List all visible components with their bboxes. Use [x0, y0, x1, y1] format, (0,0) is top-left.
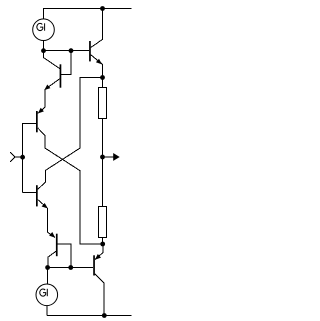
transistor Q6 emitter arrow	[95, 254, 101, 260]
wire Q1 base riser	[61, 51, 71, 75]
wire output stub	[103, 156, 115, 158]
transistor Q2 base bar	[36, 111, 38, 132]
wire GI1 bottom lead	[43, 41, 45, 59]
wire Q3 emitter lead	[38, 200, 48, 209]
output terminal arrow	[113, 153, 120, 161]
wire Q5 emitter drop	[101, 64, 103, 78]
current source GI1 label	[37, 23, 45, 30]
wire Q6 emitter lead	[95, 244, 103, 260]
junction dot bus left	[41, 48, 46, 53]
transistor Q1 base bar	[60, 64, 62, 87]
wire GI2 bottom lead	[46, 306, 48, 316]
resistor R2	[99, 207, 107, 238]
wire GI2 top lead	[46, 268, 48, 285]
junction dot R2 bottom node	[100, 242, 105, 247]
wire Q3 base	[23, 192, 36, 194]
input terminal prong lower	[10, 157, 15, 162]
current source GI1 circle	[33, 19, 55, 41]
transistor Q3 base bar	[36, 185, 38, 206]
transistor Q5 emitter arrow	[96, 59, 102, 65]
wire R1 bottom lead	[102, 118, 104, 157]
wire Q1 collector	[44, 58, 60, 69]
wire Q4 emitter lead	[48, 232, 55, 237]
wire top bus	[44, 50, 90, 52]
junction dot input node	[20, 155, 25, 160]
wire Q4 base riser	[58, 244, 71, 268]
wire Q5 emitter lead	[91, 55, 103, 65]
junction dot bottom rail	[102, 313, 107, 318]
transistor Q4 base bar	[56, 234, 58, 257]
transistor Q2 emitter arrow	[38, 108, 44, 114]
current source GI2 label	[40, 289, 48, 296]
resistor R1	[99, 88, 107, 119]
wire GI1 top lead	[43, 9, 45, 20]
wire Q2 emitter lead	[38, 107, 45, 113]
transistor Q6 base bar	[93, 255, 95, 275]
current source GI2 circle	[36, 284, 58, 306]
transistor Q4 emitter arrow	[49, 232, 55, 238]
wire Q1-Q2 emitter link	[44, 89, 46, 108]
wire R1 top lead	[102, 78, 104, 88]
junction dot bottom bus left	[45, 265, 50, 270]
junction dot bottom bus right	[68, 265, 73, 270]
wire Q2 collector to cross	[38, 128, 103, 244]
wire bottom bus	[47, 267, 93, 269]
wire Q4 collector	[48, 251, 56, 267]
junction dot bus right	[69, 48, 74, 53]
wire Q5 collector riser	[91, 9, 103, 48]
wire Q6 collector drop	[95, 274, 104, 316]
wire input stub	[15, 156, 23, 158]
wire top rail	[43, 8, 132, 10]
wire R2 top lead	[102, 157, 104, 206]
transistor Q5 base bar	[89, 41, 91, 61]
wire Q2 base	[23, 124, 36, 193]
wire Q1 emitter lead	[45, 79, 60, 90]
junction dot top rail	[100, 6, 105, 11]
wire Q3 collector to cross	[38, 78, 103, 190]
transistor Q3 emitter arrow	[42, 203, 48, 209]
junction dot R1 top node	[100, 75, 105, 80]
wire bottom rail	[47, 315, 132, 317]
wire R2 bottom lead	[102, 237, 104, 244]
wire Q3-Q4 emitter link	[47, 208, 49, 233]
transistor Q1 emitter arrow	[44, 85, 50, 91]
input terminal prong upper	[10, 152, 15, 157]
junction dot output node	[100, 155, 105, 160]
